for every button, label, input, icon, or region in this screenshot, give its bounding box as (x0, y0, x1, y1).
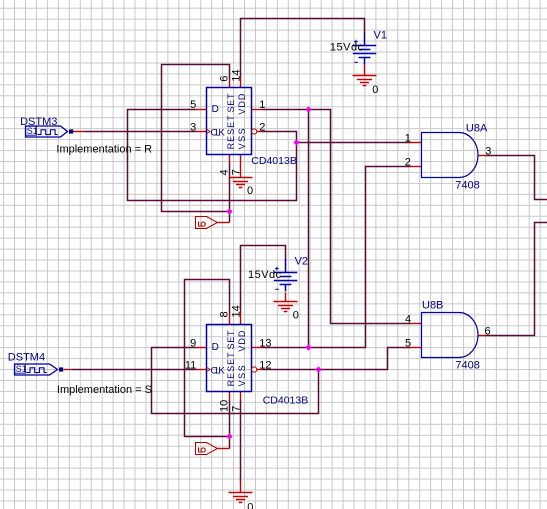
svg-text:0: 0 (293, 310, 299, 322)
svg-text:0: 0 (247, 501, 253, 509)
pin 7 stub U1 to ground G1 (240, 155, 242, 178)
wire SET1 loop: U1 pin6 up, left, down to RESET1 junction (162, 65, 230, 212)
plus sign V2 (275, 267, 279, 271)
svg-text:6: 6 (485, 326, 491, 338)
svg-text:14: 14 (230, 70, 242, 82)
wire U8B output pin6 to sheet right edge (486, 223, 547, 336)
junction Qbar1 to U8A pin1 (293, 139, 299, 145)
junction SET1/RESET1/LO1 (226, 208, 232, 214)
wire LO2 up to junction (229, 437, 231, 449)
S1 frame DSTM4 (15, 364, 26, 373)
svg-text:V2: V2 (295, 255, 308, 267)
pin 4 stub U1 (229, 155, 231, 165)
svg-text:VDD: VDD (237, 93, 247, 115)
svg-text:CLK: CLK (211, 365, 226, 376)
wire Q1: U1 pin1 right, down to U8B pin4 (262, 110, 411, 324)
svg-text:CD4013B: CD4013B (263, 395, 309, 407)
svg-text:0: 0 (372, 84, 378, 96)
pin 3 stub U1 (197, 131, 207, 133)
plus sign V1 (354, 40, 358, 44)
pin 2 stub U1 (257, 131, 262, 133)
ground 0 under U1 pin7 (229, 178, 253, 188)
waveform glyph DSTM3 (38, 130, 58, 135)
svg-text:6: 6 (218, 76, 230, 82)
U8A pin 2 stub (411, 166, 422, 168)
svg-text:RESET: RESET (226, 352, 236, 387)
svg-text:SET: SET (226, 330, 236, 350)
junction Qbar2 branch (315, 366, 321, 372)
svg-text:4: 4 (218, 169, 230, 175)
pin 6 stub U1 (229, 78, 231, 88)
pin 7 stub U2 (240, 392, 242, 401)
svg-text:Implementation = R: Implementation = R (56, 143, 152, 155)
svg-text:12: 12 (259, 359, 271, 371)
wire RESET2: U2 pin10 down to junction (229, 400, 231, 437)
svg-text:7: 7 (230, 406, 242, 412)
pin square DSTM3 (69, 129, 73, 133)
svg-text:DSTM3: DSTM3 (20, 116, 57, 128)
svg-text:15Vdc: 15Vdc (330, 41, 364, 53)
svg-text:9: 9 (190, 338, 196, 350)
svg-text:RESET: RESET (226, 115, 236, 150)
CLK triangle U1 (207, 129, 211, 134)
svg-text:0: 0 (247, 185, 253, 197)
junction Q2 branch (305, 344, 311, 350)
LO1 output stub (217, 222, 229, 224)
wire Q2 to U8A pin2: U2 pin13 right then up (262, 167, 411, 348)
svg-text:LO: LO (198, 220, 207, 229)
U8A pin 1 stub (411, 142, 422, 144)
pin square DSTM4 (59, 367, 63, 371)
ground 0 under U2 pin7 (229, 493, 253, 503)
svg-text:5: 5 (190, 99, 196, 111)
DSTM4 output stub (64, 369, 72, 371)
ground 0 under V2 (274, 302, 298, 312)
svg-text:Implementation = S: Implementation = S (57, 384, 152, 396)
svg-text:CLK: CLK (211, 127, 226, 138)
svg-text:4: 4 (405, 313, 411, 325)
svg-text:10: 10 (218, 400, 230, 412)
Qbar bubble U2 (252, 367, 257, 372)
ground 0 under V1 (353, 76, 377, 86)
svg-text:2: 2 (259, 121, 265, 133)
waveform glyph DSTM4 (27, 368, 47, 373)
pin 13 stub U2 (252, 347, 263, 349)
stimulus DSTM4 body (15, 364, 58, 375)
DSTM3 output stub (73, 131, 85, 133)
wire U8A output pin3 to sheet right edge (486, 156, 547, 200)
pin 14 stub U2 (240, 313, 242, 325)
svg-text:2: 2 (405, 156, 411, 168)
svg-text:D: D (212, 104, 219, 115)
svg-text:3: 3 (485, 145, 491, 157)
svg-text:V1: V1 (374, 30, 387, 42)
LO2 output stub (217, 448, 229, 450)
svg-text:7408: 7408 (455, 180, 479, 192)
svg-text:SET: SET (226, 93, 236, 113)
flip-flop U2 body (CD4013B) (207, 325, 252, 392)
wire LO1 up to junction (229, 212, 231, 223)
minus sign V1 (354, 61, 358, 63)
pin 10 stub U2 (229, 392, 231, 401)
svg-text:7408: 7408 (455, 359, 479, 371)
battery V1 plates (353, 32, 376, 65)
svg-text:VDD: VDD (237, 330, 247, 352)
junction SET2/RESET2/LO2 (226, 433, 232, 439)
svg-text:11: 11 (185, 359, 196, 371)
pin 12 stub U2 (257, 369, 262, 371)
pin 14 stub U1 (240, 78, 242, 88)
wire U2 pin7 down to ground G4 (240, 400, 242, 482)
LO1 pulldown body (196, 217, 218, 229)
svg-text:U8A: U8A (466, 122, 488, 134)
wire tie Q1 net to Q2 net (308, 110, 310, 348)
pin 1 stub U1 (252, 109, 263, 111)
svg-text:LO: LO (198, 446, 207, 455)
svg-text:S1: S1 (16, 364, 27, 374)
svg-text:D: D (212, 342, 219, 353)
Qbar bubble U1 (252, 129, 257, 134)
svg-text:VSS: VSS (237, 128, 247, 149)
CLK triangle U2 (207, 367, 211, 372)
wire VDD1 net: U1 pin14 up and across to V1 + terminal (241, 19, 365, 79)
wire RESET1: U1 pin4 down to junction (229, 163, 231, 212)
pin 9 stub U2 (197, 347, 207, 349)
U8B pin 6 stub (478, 335, 485, 337)
svg-text:3: 3 (190, 121, 196, 133)
svg-text:1: 1 (405, 132, 411, 144)
svg-text:DSTM4: DSTM4 (8, 351, 45, 363)
svg-text:5: 5 (405, 337, 411, 349)
svg-text:CD4013B: CD4013B (251, 155, 297, 167)
wire SET2 loop: U2 pin8 up, left, down to junction near LO2 (185, 280, 230, 437)
V1 ground lead (364, 65, 366, 76)
stimulus DSTM3 body (26, 126, 68, 137)
wire Qbar2 (pin12) to U8B pin5 (262, 348, 411, 370)
minus sign V2 (275, 288, 279, 290)
pin 8 stub U2 (229, 313, 231, 325)
V2 ground lead (285, 293, 287, 302)
svg-text:VSS: VSS (237, 365, 247, 386)
wire DSTM3 to CLK1 (pin3) (85, 131, 197, 133)
wire U8A pin1 branch from Qbar1 net (297, 142, 411, 144)
battery V2 plates (274, 259, 297, 292)
svg-text:U8B: U8B (422, 300, 443, 312)
S1 frame DSTM3 (26, 126, 37, 135)
svg-text:15Vdc: 15Vdc (248, 269, 282, 281)
wire D1 feedback: pin5 left, down, across, up to Qbar1 (pin2) (128, 110, 297, 201)
U8A pin 3 stub (478, 155, 486, 157)
pin 5 stub U1 (197, 109, 207, 111)
G4 ground lead (240, 481, 242, 493)
AND gate U8B body (7408) (422, 313, 479, 358)
wire DSTM4 to CLK2 (pin11) (71, 369, 196, 371)
flip-flop U1 body (CD4013B) (207, 88, 252, 155)
svg-text:8: 8 (218, 311, 230, 317)
svg-text:7: 7 (230, 169, 242, 175)
LO2 pulldown body (196, 443, 218, 455)
U8B pin 4 stub (411, 323, 422, 325)
svg-text:1: 1 (259, 99, 265, 111)
svg-text:13: 13 (259, 338, 271, 350)
wire D2 feedback: pin9 left, down, across, up to Qbar2 junction (152, 348, 319, 414)
svg-text:14: 14 (230, 305, 242, 317)
pin 11 stub U2 (197, 369, 207, 371)
wire VDD2 net: U2 pin14 up and across to V2 (241, 246, 286, 314)
AND gate U8A body (7408) (422, 133, 479, 178)
U8B pin 5 stub (411, 347, 422, 349)
junction Q1 branch (305, 106, 311, 112)
